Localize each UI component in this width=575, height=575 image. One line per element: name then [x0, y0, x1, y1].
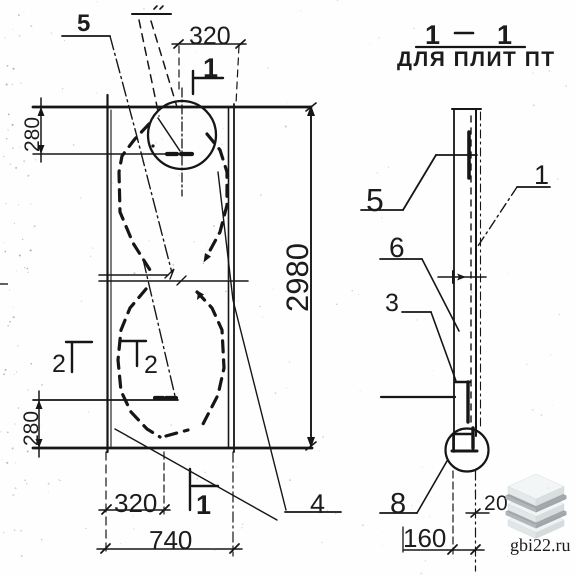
logo plate 2 [508, 504, 536, 523]
dimension 160: dim line [404, 549, 484, 551]
protruding dowel bar [381, 396, 455, 398]
svg-text:1: 1 [196, 490, 211, 520]
leader to lower loop [143, 259, 175, 396]
leader 4b from lower opening to label 4 [115, 429, 277, 520]
label 4 underline [285, 511, 341, 513]
leader dashed from top label to loop (left) [139, 20, 159, 116]
mid seam slash mark [177, 276, 186, 285]
extension lines below detail circle [452, 471, 454, 554]
dimension 320 top: extension lines [178, 46, 180, 92]
svg-text:6: 6 [389, 232, 405, 263]
slab right edge outer line [233, 104, 235, 452]
dimension 320 bottom slash ticks [102, 505, 111, 514]
svg-text:ДЛЯ ПЛИТ ПТ: ДЛЯ ПЛИТ ПТ [397, 48, 556, 71]
svg-text:4: 4 [310, 489, 325, 519]
label 8: leader [417, 461, 447, 513]
label 5 section: leader horizontal to loop [436, 154, 477, 156]
dimension 320 bottom: dim line [99, 509, 170, 511]
label 6: underline [380, 258, 422, 260]
upper opening dashed outline left [119, 124, 150, 270]
label 5 section: underline [361, 209, 403, 211]
section mark 1 top: vertical [192, 71, 194, 94]
section mark 1 top: horizontal [193, 77, 223, 79]
section cut dash-dot line right [480, 112, 482, 430]
slab left edge inner line [110, 110, 112, 447]
dimension 740: dim line [97, 548, 242, 550]
svg-text:1: 1 [534, 160, 549, 190]
dimension 740 slash ticks [101, 544, 110, 553]
svg-text:1: 1 [497, 20, 512, 50]
svg-text:5: 5 [366, 182, 384, 218]
slab right edge inner line [228, 107, 230, 448]
bar tick at mid right [475, 271, 477, 283]
dimension 280 bottom: dim line [38, 391, 40, 457]
svg-text:2980: 2980 [280, 243, 315, 312]
dimension 320 top: line [172, 43, 246, 45]
arrow at upper opening lower end [204, 253, 212, 263]
section bar left face [453, 109, 455, 452]
dimension 2980 arrows [307, 105, 315, 116]
title dash between 1s [455, 32, 473, 35]
leader solid into anchor [158, 118, 180, 151]
svg-text:160: 160 [403, 523, 446, 553]
rebar dashed inside bar [470, 116, 472, 428]
small dot in circle [151, 144, 154, 147]
svg-text:gbi22.ru: gbi22.ru [510, 535, 571, 555]
mid seam break arrow upper [165, 269, 174, 279]
label 3: leader [431, 312, 456, 381]
lower rebar thick [466, 382, 469, 422]
slab top edge [33, 106, 311, 109]
section bar right face [475, 109, 477, 436]
top loop thick bar [467, 132, 471, 178]
logo band 2 [506, 512, 537, 529]
svg-text:320: 320 [189, 22, 231, 50]
section mark 1 bottom: horizontal [192, 485, 218, 487]
dimension 280 bottom: upper extension line [33, 399, 178, 401]
top anchor loop bar [167, 152, 192, 156]
top label tick marks [154, 6, 157, 9]
circle vertical centreline [181, 88, 183, 196]
slab bottom edge [33, 447, 312, 450]
dimension 280 top: dim line [40, 98, 42, 162]
title underline [416, 46, 525, 48]
lower opening dashed outline right [197, 292, 224, 424]
section bar top edge [452, 108, 481, 110]
rebar end tick [455, 381, 470, 383]
slab left edge [106, 95, 108, 452]
mid anchor arrow [457, 274, 466, 281]
svg-text:2: 2 [144, 351, 158, 379]
label 5 section: leader diagonal [403, 155, 436, 210]
logo plate 1 [508, 487, 536, 507]
svg-text:2: 2 [52, 350, 66, 378]
logo band 1 [506, 496, 537, 513]
dimension 160 left terminator [402, 527, 404, 552]
label 6: leader [422, 259, 459, 331]
dimension 280 bottom arrows [36, 400, 43, 409]
section mark 1 bottom: vertical [189, 469, 191, 510]
dimension 320 bottom: extension line right [163, 452, 165, 516]
mid seam line upper [99, 274, 168, 276]
lower opening bottom dash [166, 430, 188, 436]
hook in detail circle [454, 433, 473, 435]
section mark 2 left [66, 341, 92, 343]
dimension 740: extension lines [105, 452, 107, 556]
label 3: underline [402, 311, 431, 313]
dimension 280 top: lower extension line [33, 153, 192, 155]
arrow at lower opening upper end [197, 291, 204, 300]
label 1 section: underline [517, 186, 550, 188]
svg-text:2: 2 [484, 492, 496, 515]
stray mark left margin [0, 283, 8, 285]
svg-text:3: 3 [385, 289, 399, 317]
mid seam line lower [99, 280, 248, 282]
svg-text:1: 1 [203, 53, 218, 83]
label 5 long leader to bottom loop [110, 36, 172, 273]
dimension 2980: dim line [310, 107, 312, 446]
detail circle bottom [446, 429, 489, 472]
svg-text:1: 1 [425, 20, 440, 50]
svg-text:320: 320 [114, 488, 157, 518]
mid anchor line through bar [438, 276, 486, 278]
label 5 leader horizontal [62, 35, 110, 37]
svg-text:280: 280 [21, 117, 44, 152]
dimension 320 top: slash ticks [174, 40, 183, 48]
gbi22.ru logo plates [506, 474, 567, 539]
logo plate 3 [508, 520, 536, 539]
dimension 280 top arrows [38, 107, 45, 116]
leader dashed from top label to loop (right) [151, 21, 177, 107]
svg-text:5: 5 [77, 10, 90, 37]
label 1 section: dash-dot leader [476, 187, 517, 249]
lower opening dashed outline left [118, 289, 160, 437]
svg-text:8: 8 [390, 488, 406, 520]
bar tick at mid left [452, 271, 454, 283]
upper opening dashed outline right [207, 134, 227, 256]
svg-text:740: 740 [149, 525, 192, 555]
label 8: underline [380, 512, 417, 514]
svg-text:280: 280 [20, 411, 43, 446]
section mark 2 right [120, 340, 146, 342]
leader 4a from upper opening to label 4 [218, 172, 286, 510]
lower anchor loop bar [155, 396, 176, 400]
top cropped label line [132, 13, 171, 15]
dimension 160 slash ticks [448, 545, 457, 554]
dimension 20 tick [466, 512, 489, 514]
detail circle around top lifting loop [148, 101, 216, 169]
